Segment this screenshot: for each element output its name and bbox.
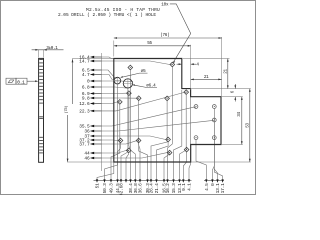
bottom ordinate tick	[125, 179, 127, 182]
leader from 10x note to tapped hole	[170, 4, 191, 62]
svg-text:16.2: 16.2	[165, 183, 171, 194]
hole B1	[194, 105, 198, 109]
hole B2	[212, 105, 216, 109]
dimension 21 vertical	[227, 59, 229, 89]
svg-text:3±0.1: 3±0.1	[46, 46, 58, 51]
svg-text:4.5: 4.5	[204, 183, 210, 191]
dimension (73) overall height	[72, 59, 74, 104]
tapped hole A1	[128, 65, 133, 70]
ext line 55 right / step	[190, 45, 192, 90]
ext line 76 left	[113, 41, 115, 57]
svg-text:22.3: 22.3	[79, 109, 90, 115]
drawing frame	[1, 1, 256, 195]
dimension 3 +/-0.1	[38, 50, 40, 58]
dimension 53 vertical	[249, 89, 251, 162]
svg-text:4.1: 4.1	[187, 183, 193, 191]
svg-text:36.6: 36.6	[138, 183, 144, 194]
plate outline front view	[114, 59, 221, 163]
hole circle 6.4 dia	[123, 79, 132, 88]
svg-text:9.8: 9.8	[82, 96, 90, 102]
svg-text:42.68: 42.68	[119, 183, 125, 195]
svg-text:6: 6	[231, 90, 236, 93]
ext line 76 right	[221, 37, 223, 96]
side view hole marks	[39, 59, 43, 61]
svg-text:37.7: 37.7	[79, 142, 90, 148]
dia6.4 arrowhead	[132, 84, 135, 86]
ext top edge to (73)	[72, 58, 113, 60]
svg-text:∅6.4: ∅6.4	[146, 84, 156, 89]
dimension 34 vertical	[241, 97, 243, 145]
centerline hole 6.4	[127, 78, 129, 88]
hole B3	[212, 118, 216, 122]
svg-text:14.7: 14.7	[79, 59, 90, 65]
svg-text:4.7: 4.7	[82, 72, 90, 78]
tapped hole A11	[126, 148, 131, 153]
tapped hole A6	[118, 100, 123, 105]
frame leader arrowhead	[35, 80, 38, 82]
svg-text:53: 53	[245, 123, 250, 128]
ext line y162	[191, 161, 251, 163]
ext line y88.6	[192, 88, 251, 90]
svg-text:4: 4	[196, 63, 199, 68]
bottom ordinate dimension leaders	[97, 163, 114, 180]
left ordinate dimension leaders	[93, 57, 114, 59]
flatness symbol	[8, 80, 14, 83]
tapped hole A8	[118, 138, 123, 143]
bottom ordinate baseline	[94, 179, 192, 181]
svg-text:10x: 10x	[161, 2, 169, 7]
svg-text:21.4: 21.4	[154, 183, 160, 194]
svg-text:0: 0	[87, 79, 90, 85]
centerline hole 5	[116, 77, 118, 85]
svg-text:6.8: 6.8	[82, 85, 90, 91]
tapped hole A13	[184, 147, 189, 152]
svg-text:21: 21	[204, 75, 209, 80]
side view plate section	[39, 58, 44, 162]
tapped hole A7	[184, 90, 189, 95]
tapped hole A9	[136, 138, 141, 143]
leader from frame to side view	[27, 80, 36, 82]
svg-text:(73): (73)	[64, 106, 69, 114]
svg-text:51: 51	[95, 183, 101, 189]
dimension 21 horizontal	[191, 78, 222, 80]
tapped hole A5	[165, 96, 170, 101]
svg-text:50.3: 50.3	[102, 183, 108, 194]
hole B5	[212, 136, 216, 140]
hole circle 5 dia	[114, 77, 121, 84]
dimension 6 vertical	[234, 84, 236, 89]
svg-text:34: 34	[237, 112, 242, 117]
svg-text:49.3: 49.3	[109, 183, 115, 194]
svg-text:9.1: 9.1	[181, 183, 187, 191]
svg-text:46: 46	[84, 156, 90, 162]
svg-text:0.1: 0.1	[17, 79, 25, 85]
hole B4	[194, 136, 198, 140]
svg-text:55: 55	[147, 41, 152, 46]
leader arrowhead	[173, 61, 176, 64]
ext line top for 21v	[183, 58, 230, 60]
svg-text:13.1: 13.1	[215, 183, 221, 194]
dimension (76)	[114, 37, 222, 39]
tapped hole A12	[167, 150, 172, 155]
svg-text:2.05 DRILL ( 2.050 ) THRU <: 2.05 DRILL ( 2.050 ) THRU <( 1 ) HOLE	[58, 12, 156, 18]
dimension 55	[114, 45, 191, 47]
svg-text:26.4: 26.4	[149, 183, 155, 194]
svg-text:∅5: ∅5	[141, 69, 146, 74]
tapped hole A3	[127, 91, 132, 96]
left ordinate baseline	[101, 53, 103, 171]
tapped hole A2 (10x leader target)	[170, 62, 175, 67]
ext line y144.5	[222, 144, 243, 146]
svg-text:M2.5x.45 ISO - H TAP THRU: M2.5x.45 ISO - H TAP THRU	[86, 7, 160, 13]
svg-text:12.6: 12.6	[79, 101, 90, 107]
svg-text:15.3: 15.3	[171, 183, 177, 194]
ext line y96.7	[221, 96, 243, 98]
svg-text:17.1: 17.1	[220, 183, 226, 194]
dimension 4 (step width)	[177, 63, 182, 65]
svg-text:21: 21	[223, 69, 228, 74]
tapped hole A4	[136, 96, 141, 101]
svg-text:(76): (76)	[160, 33, 169, 38]
tapped hole A10	[166, 137, 171, 142]
GD&T flatness feature control frame	[6, 78, 16, 84]
dia5 arrowhead	[120, 76, 123, 78]
ext bottom edge to (73)	[67, 161, 113, 163]
